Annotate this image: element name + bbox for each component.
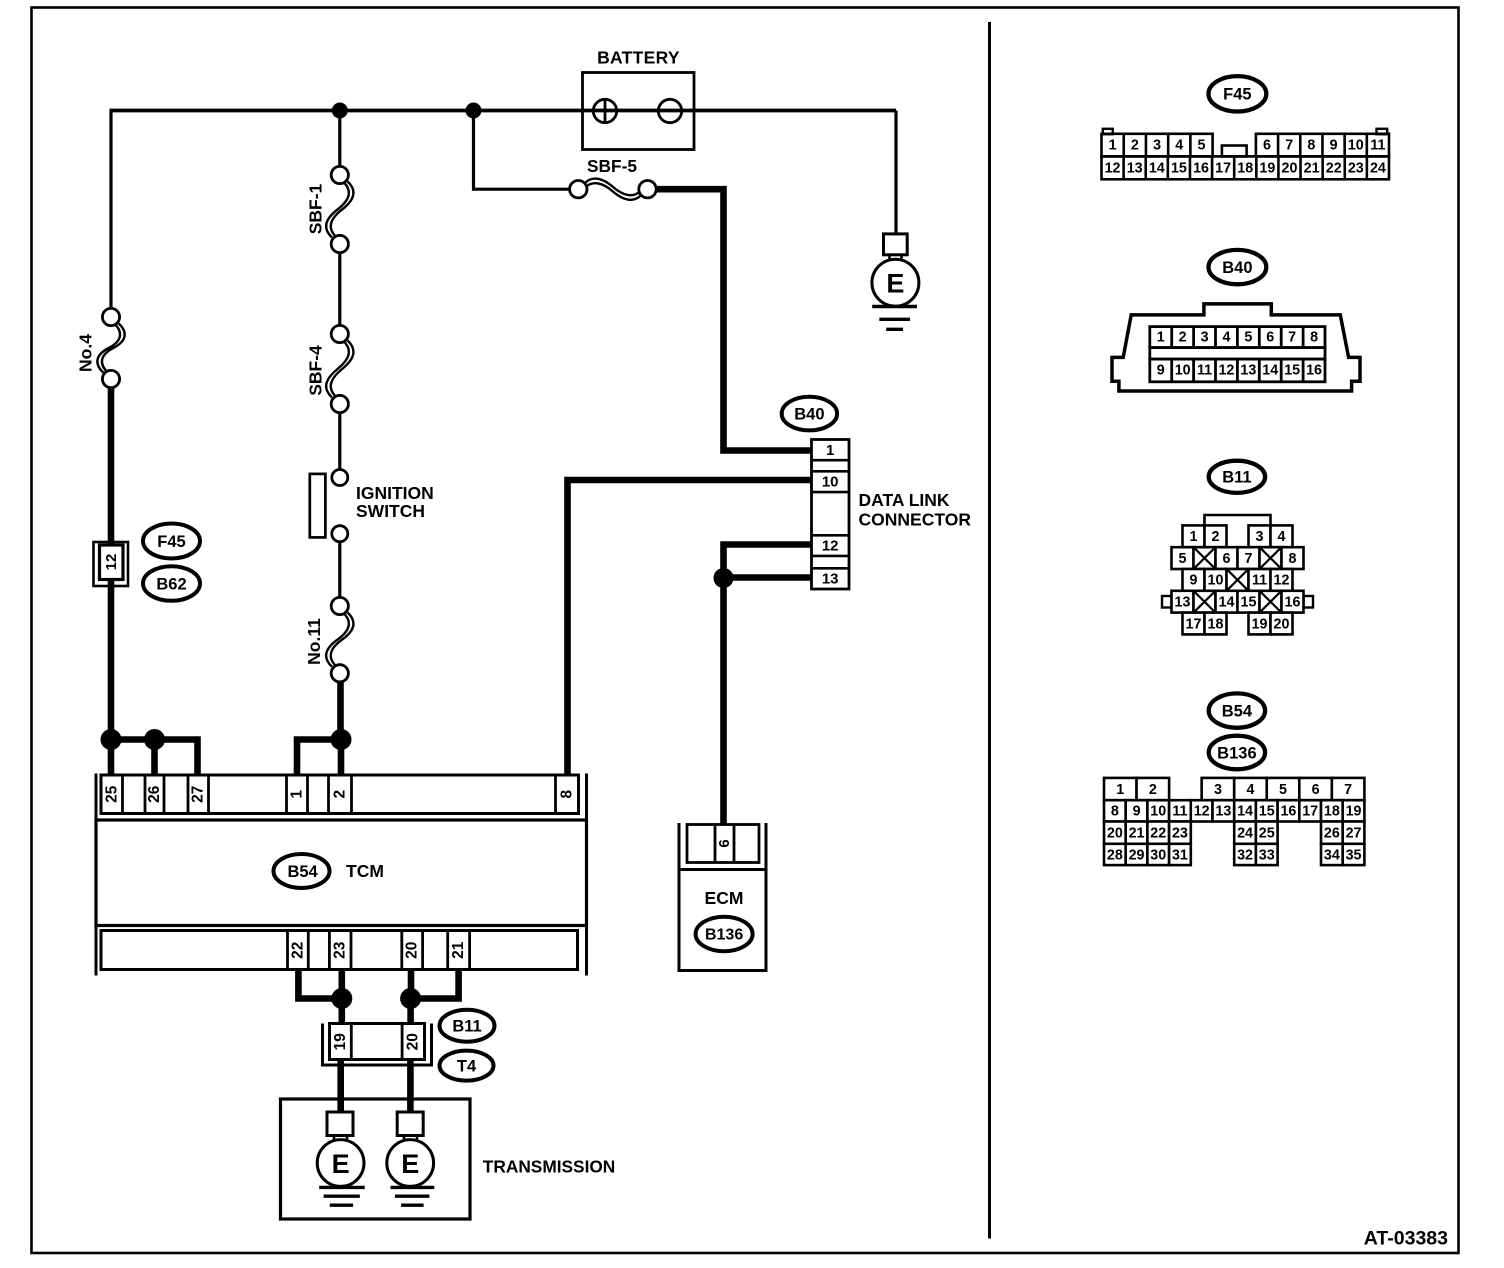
svg-text:30: 30 [1150,847,1166,863]
B11 row 1 pins 1-4 [1183,525,1205,547]
B40 pins 1-8 [1150,327,1325,348]
svg-text:23: 23 [1348,160,1364,176]
svg-text:SBF-1: SBF-1 [306,183,326,234]
svg-text:F45: F45 [1223,86,1251,104]
svg-text:12: 12 [1194,804,1210,820]
connector view oval B11 [1209,461,1265,493]
svg-text:9: 9 [1133,804,1141,820]
svg-text:6: 6 [1266,330,1274,346]
wire: junction down to SBF-1 [338,111,341,168]
svg-text:2: 2 [1149,782,1157,798]
B54 row 3 pins 20-27 [1104,822,1126,844]
svg-text:16: 16 [1285,595,1301,611]
svg-text:3: 3 [1201,330,1209,346]
svg-text:B11: B11 [1222,469,1251,487]
connector view oval B136 [1209,736,1265,770]
B11-T4 connector bracket [321,1024,324,1066]
svg-text:DATA LINK: DATA LINK [859,490,950,510]
fuse No.11 [326,613,349,667]
connector oval B54 (left) [274,854,330,888]
fuse holder 12 inner box [100,545,124,580]
svg-text:5: 5 [1179,551,1187,567]
svg-text:32: 32 [1237,847,1253,863]
svg-text:35: 35 [1346,847,1362,863]
svg-text:14: 14 [1149,160,1165,176]
B11-T4 connector body [330,1024,425,1060]
B54 row 1 pins 1-7 [1104,778,1137,800]
wire: thick L to TCM pin 1 [297,740,341,776]
solenoid 2 bulb E [387,1140,434,1187]
svg-text:23: 23 [1172,825,1188,841]
wire: main battery bus (horizontal) [110,109,897,113]
solenoid 1 ground symbol [319,1186,365,1189]
svg-text:11: 11 [1252,573,1267,589]
svg-text:26: 26 [146,785,163,803]
node junction at SBF-1 branch [332,103,348,119]
B11 row 2 pins 5-8 [1172,547,1194,569]
svg-text:7: 7 [1288,330,1296,346]
connector oval B62 [143,566,200,601]
svg-text:10: 10 [1175,363,1191,379]
svg-text:13: 13 [1240,363,1256,379]
svg-text:24: 24 [1370,160,1386,176]
svg-text:4: 4 [1246,782,1254,798]
connector oval F45 (left) [143,524,200,559]
svg-text:TCM: TCM [346,861,384,881]
wire: ignition switch to fuse No.11 [338,541,341,598]
connector view F45 housing [1103,129,1113,134]
connector view B54 pin grid [1104,778,1364,865]
svg-text:B40: B40 [1222,259,1252,277]
wire: TCM pin 22 down-right to junction [298,970,341,999]
svg-text:No.11: No.11 [304,618,324,665]
svg-text:E: E [886,269,904,299]
fuse holder 12 outer bracket [94,542,129,586]
svg-text:13: 13 [1175,595,1191,611]
svg-text:25: 25 [104,785,121,803]
TCM bottom connector row [101,931,578,970]
wire: thick TCM pin 8 up to data link connector pin 10 [568,480,814,776]
svg-text:No.4: No.4 [76,334,96,372]
svg-text:22: 22 [1326,160,1342,176]
svg-text:8: 8 [1111,804,1119,820]
svg-text:19: 19 [332,1033,349,1051]
svg-text:24: 24 [1237,825,1253,841]
svg-text:31: 31 [1172,847,1188,863]
node junction above TCM pin 2 [331,729,352,750]
svg-text:11: 11 [1197,363,1212,379]
column divider line [988,22,991,1239]
ground lamp E neck [888,255,891,261]
svg-text:21: 21 [1304,160,1320,176]
svg-text:TRANSMISSION: TRANSMISSION [483,1156,616,1176]
ignition switch bar [310,474,326,538]
svg-text:12: 12 [1218,363,1234,379]
svg-text:13: 13 [1215,804,1231,820]
ignition switch contact bottom [332,526,348,542]
svg-text:5: 5 [1198,138,1206,154]
svg-text:2: 2 [1131,138,1139,154]
svg-text:T4: T4 [457,1057,477,1075]
svg-text:B54: B54 [287,863,318,881]
connector oval B40 (left) [782,397,837,431]
wire: junction down then right to SBF-5 [474,111,572,190]
ignition switch contact top [332,470,348,486]
svg-text:1: 1 [1109,138,1117,154]
connector oval B136 (left) [696,917,753,951]
solenoid 1 connector square [327,1112,353,1136]
svg-text:17: 17 [1302,804,1318,820]
wire: junction to TCM pin 25 [108,740,115,776]
svg-text:7: 7 [1245,551,1253,567]
data link connector body [812,440,850,590]
node junction on ECM feed [714,568,734,588]
svg-text:8: 8 [559,790,576,799]
svg-text:B62: B62 [156,575,186,593]
svg-text:16: 16 [1280,804,1296,820]
svg-text:14: 14 [1219,595,1235,611]
svg-text:9: 9 [1330,138,1338,154]
svg-text:15: 15 [1241,595,1257,611]
solenoid 1 bulb E [317,1140,364,1187]
svg-text:6: 6 [716,839,733,847]
connector view oval B54 [1209,693,1265,727]
svg-text:5: 5 [1244,330,1252,346]
B11 row 4 pins 13-16 [1172,591,1194,613]
svg-text:11: 11 [1172,804,1187,820]
ECM connector bracket [678,823,681,971]
wire: thick from fuse No.4 down to fuse holder 12 [108,387,115,742]
fuse SBF-4 [326,341,349,398]
solenoid 1 neck [333,1136,336,1142]
svg-text:12: 12 [103,554,120,571]
wire: thick data link pin 12 to junction [724,545,814,579]
svg-text:E: E [401,1149,419,1179]
svg-text:5: 5 [1279,782,1287,798]
svg-text:AT-03383: AT-03383 [1364,1228,1448,1250]
svg-text:B11: B11 [452,1018,481,1036]
svg-text:14: 14 [1262,363,1278,379]
wire: junction to data link pin 13 [724,574,814,581]
connector view oval F45 [1209,76,1267,111]
node junction above TCM pin 25 [101,729,122,750]
svg-text:14: 14 [1237,804,1253,820]
svg-text:2: 2 [1212,529,1220,545]
wire: junction down to TCM pin 26 [151,740,158,776]
svg-text:ECM: ECM [705,888,744,908]
TCM main box [96,820,587,926]
wire: thick SBF-5 to data link connector pin 1 [655,189,813,450]
svg-text:10: 10 [1208,573,1224,589]
svg-text:17: 17 [1186,616,1202,632]
wire: SBF-1 to SBF-4 [338,252,341,326]
ground symbol below E [872,305,917,308]
svg-text:27: 27 [190,786,207,803]
svg-text:8: 8 [1289,551,1297,567]
node junction at SBF-5 branch [466,103,482,119]
svg-text:20: 20 [1274,616,1290,632]
fuse No.4 [97,324,120,373]
svg-text:4: 4 [1175,138,1183,154]
svg-text:25: 25 [1259,825,1275,841]
svg-text:27: 27 [1346,825,1362,841]
svg-text:4: 4 [1278,529,1286,545]
svg-text:6: 6 [1263,138,1271,154]
svg-text:8: 8 [1307,138,1315,154]
B11 row 5 pins 17-20 [1183,613,1205,635]
svg-text:16: 16 [1306,363,1322,379]
svg-text:1: 1 [826,442,834,459]
svg-text:19: 19 [1259,160,1275,176]
svg-text:20: 20 [404,942,421,959]
svg-text:E: E [332,1149,350,1179]
wire: B11 pin 20 to transmission solenoid 2 [407,1060,414,1114]
svg-text:16: 16 [1193,160,1209,176]
svg-text:17: 17 [1215,160,1231,176]
svg-text:26: 26 [1324,825,1340,841]
svg-text:10: 10 [822,474,839,491]
svg-text:7: 7 [1344,782,1352,798]
B40 middle band [1150,348,1325,360]
svg-text:3: 3 [1214,782,1222,798]
ground lamp E bulb circle [872,259,919,306]
svg-text:10: 10 [1348,138,1364,154]
wire: TCM pin 21 down-left to junction [411,970,459,999]
wire: junction down to TCM pin 2 [338,740,345,776]
svg-text:B136: B136 [1217,744,1256,762]
TCM outer bracket [95,774,98,976]
svg-text:7: 7 [1285,138,1293,154]
wire: battery to ground lamp E [894,111,897,235]
svg-text:3: 3 [1256,529,1264,545]
svg-text:10: 10 [1150,804,1166,820]
wire: thick junction down to ECM pin 6 [720,578,727,825]
svg-text:21: 21 [1129,825,1145,841]
node junction to B11 pin 20 [400,988,421,1009]
svg-text:2: 2 [332,790,349,799]
svg-text:11: 11 [1370,138,1385,154]
svg-text:13: 13 [822,570,839,587]
TCM top connector row [101,775,579,814]
svg-text:19: 19 [1252,616,1268,632]
svg-text:15: 15 [1259,804,1275,820]
svg-text:12: 12 [822,538,839,555]
svg-text:1: 1 [1190,529,1198,545]
connector oval B11 (left) [440,1010,495,1042]
wire: thick from No.11 to TCM pin 2 junction [337,681,344,742]
svg-text:15: 15 [1284,363,1300,379]
B54 row 2 pins 8-19 [1104,800,1126,821]
svg-text:15: 15 [1171,160,1187,176]
wire: junction down to B11 pin 19 [338,999,345,1026]
connector view B40 housing [1112,304,1360,391]
svg-text:CONNECTOR: CONNECTOR [859,510,972,530]
wire: junction down to B11 pin 20 [407,999,414,1026]
solenoid 2 connector square [397,1112,423,1136]
B40 pins 9-16 [1150,359,1325,382]
svg-text:B136: B136 [705,926,743,943]
svg-text:4: 4 [1222,330,1230,346]
svg-text:9: 9 [1157,363,1165,379]
B11 top notch [1205,515,1271,526]
fuse SBF-5 (horizontal fusible link) [584,179,641,196]
B11 row 4 side tabs [1162,596,1172,608]
wire: B11 pin 19 to transmission solenoid 1 [337,1060,344,1114]
svg-text:1: 1 [1157,330,1165,346]
svg-text:12: 12 [1274,573,1290,589]
svg-text:22: 22 [289,942,306,959]
svg-text:21: 21 [450,941,467,959]
svg-text:22: 22 [1150,825,1166,841]
svg-text:6: 6 [1223,551,1231,567]
svg-text:B54: B54 [1222,702,1253,720]
svg-text:18: 18 [1324,804,1340,820]
connector view B11 pin grid [1162,515,1313,634]
svg-text:B40: B40 [794,405,824,423]
svg-text:SBF-5: SBF-5 [587,156,637,176]
svg-text:1: 1 [289,790,306,799]
svg-text:18: 18 [1208,616,1224,632]
svg-text:34: 34 [1324,847,1340,863]
svg-text:SBF-4: SBF-4 [306,345,326,396]
svg-text:23: 23 [332,941,349,959]
B11 row 3 pins 9-12 [1183,569,1205,591]
wire: SBF-4 to ignition switch [338,412,341,470]
svg-text:12: 12 [1105,160,1121,176]
fuse SBF-1 [326,182,349,238]
svg-text:20: 20 [1107,825,1123,841]
svg-text:20: 20 [405,1033,422,1050]
svg-text:33: 33 [1259,847,1275,863]
svg-text:1: 1 [1116,782,1124,798]
svg-text:28: 28 [1107,847,1123,863]
svg-text:19: 19 [1346,804,1362,820]
svg-text:SWITCH: SWITCH [356,501,425,521]
svg-text:BATTERY: BATTERY [597,48,680,68]
connector oval T4 [440,1051,494,1081]
solenoid 2 ground symbol [391,1186,435,1189]
svg-text:29: 29 [1129,847,1145,863]
battery negative terminal [658,99,681,122]
ECM connector pin row [687,825,759,863]
svg-text:20: 20 [1282,160,1298,176]
solenoid 2 neck [403,1136,406,1142]
wire: thick across to TCM pin 27 [111,740,198,776]
svg-text:9: 9 [1190,573,1198,589]
svg-text:IGNITION: IGNITION [356,483,434,503]
B54 row 4 pins 28-35 [1104,844,1126,865]
wire: left branch vertical to fuse No.4 [109,111,112,311]
svg-text:6: 6 [1312,782,1320,798]
svg-text:F45: F45 [157,533,185,551]
transmission box [281,1099,471,1219]
svg-text:13: 13 [1127,160,1143,176]
svg-text:18: 18 [1237,160,1253,176]
svg-text:3: 3 [1153,138,1161,154]
wire: TCM pin 20 down to junction [408,970,415,999]
battery box [583,73,695,150]
battery positive terminal [593,99,616,122]
ground lamp E connector square [884,234,908,255]
node junction to B11 pin 19 [331,988,352,1009]
node junction above TCM pin 26 [144,729,165,750]
svg-text:8: 8 [1310,330,1318,346]
connector view oval B40 [1209,250,1267,284]
svg-text:2: 2 [1179,330,1187,346]
wire: TCM pin 23 down to junction [338,970,345,999]
ECM box [679,870,766,971]
